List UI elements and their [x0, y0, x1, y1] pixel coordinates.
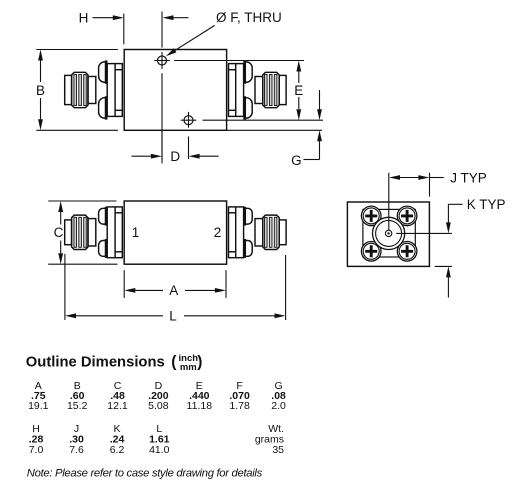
dimension L: arrows and label [65, 313, 76, 318]
svg-text:): ) [197, 353, 202, 370]
dimension J TYP [429, 173, 431, 197]
svg-text:Note: Please refer to case sty: Note: Please refer to case style drawing… [27, 467, 263, 479]
svg-text:E: E [294, 83, 303, 98]
svg-text:L: L [169, 308, 177, 323]
svg-text:D: D [170, 149, 180, 164]
top view: right SMA connector [228, 60, 286, 119]
svg-text:12.1: 12.1 [107, 400, 128, 412]
svg-text:B: B [36, 83, 45, 98]
dimension L: extension lines [64, 254, 66, 320]
dimension A: extension lines [123, 270, 125, 298]
svg-text:2.0: 2.0 [271, 400, 286, 412]
svg-text:35: 35 [272, 444, 284, 456]
side view: right SMA connector [228, 207, 286, 258]
dimension D: arrows and label [132, 155, 152, 157]
end view: inner flange plate [363, 209, 415, 257]
svg-text:11.18: 11.18 [187, 400, 213, 412]
side view: left SMA connector [65, 207, 123, 258]
end view: horizontal centerline extension for K [396, 232, 452, 234]
svg-text:Ø F, THRU: Ø F, THRU [216, 10, 282, 25]
svg-text:A: A [169, 283, 178, 298]
svg-text:mm: mm [180, 362, 197, 373]
svg-text:1.78: 1.78 [229, 400, 250, 412]
svg-text:C: C [54, 225, 64, 240]
svg-text:15.2: 15.2 [67, 400, 88, 412]
hole 2 centerline vertical [188, 112, 190, 128]
end view: SMA connector circles [373, 217, 405, 249]
svg-text:K TYP: K TYP [467, 197, 506, 212]
svg-text:7.6: 7.6 [69, 444, 84, 456]
end view: flange square outline [347, 202, 429, 266]
svg-text:2: 2 [214, 225, 222, 240]
end view: screws (4x phillips) [361, 206, 381, 226]
svg-text:(: ( [171, 353, 177, 370]
top view: left SMA connector [65, 60, 123, 119]
hole 1 centerline horizontal (extends right to E dimension) [154, 60, 169, 62]
svg-text:Outline Dimensions: Outline Dimensions [26, 354, 165, 370]
svg-text:1: 1 [132, 225, 140, 240]
svg-text:G: G [291, 153, 302, 168]
svg-text:41.0: 41.0 [149, 444, 170, 456]
dimension C: arrows and label [60, 212, 62, 225]
svg-text:7.0: 7.0 [29, 444, 44, 456]
svg-text:19.1: 19.1 [28, 400, 49, 412]
dimension C: extension lines [48, 200, 116, 202]
dimension B: arrows and label [40, 61, 42, 83]
side view: case body outline [124, 201, 226, 264]
hole 1 centerline vertical [161, 12, 163, 48]
svg-text:6.2: 6.2 [110, 444, 125, 456]
top view: case body outline [124, 50, 226, 131]
svg-text:5.08: 5.08 [148, 400, 169, 412]
dimension B: extension lines [36, 49, 118, 51]
dimension A: arrows and label [124, 288, 135, 293]
svg-text:J TYP: J TYP [450, 170, 487, 185]
dimension G: arrows, elbow and label [319, 90, 321, 110]
dimension E: arrows and label [298, 72, 300, 84]
end view: vertical centerline [388, 173, 390, 230]
svg-text:H: H [79, 10, 89, 25]
hole 2 centerline horizontal (extends right to E/G dimensions) [181, 119, 197, 121]
body bottom edge extension for G [227, 129, 322, 131]
hole 2 [184, 116, 193, 125]
dimension D: extension lines [161, 131, 163, 163]
hole 1 (mounting hole, Ø F thru) [158, 56, 167, 65]
